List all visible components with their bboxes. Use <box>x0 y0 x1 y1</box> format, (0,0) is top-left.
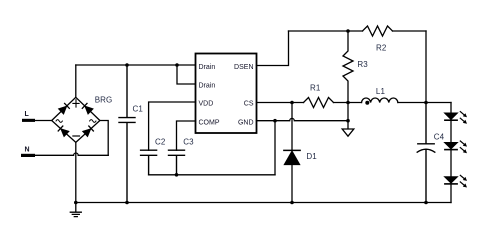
LED D2 <box>445 113 457 119</box>
svg-text:Drain: Drain <box>199 64 216 71</box>
resistor R2 <box>363 26 393 36</box>
svg-text:DSEN: DSEN <box>234 64 253 71</box>
svg-text:L1: L1 <box>376 87 386 96</box>
terminal N <box>21 154 35 157</box>
capacitor C2 <box>141 150 157 175</box>
wire <box>274 121 276 175</box>
ground arrow <box>342 129 354 136</box>
svg-text:C1: C1 <box>133 104 144 113</box>
wire <box>35 120 52 122</box>
svg-text:L: L <box>25 111 30 118</box>
capacitor C1 <box>119 65 135 203</box>
svg-text:R2: R2 <box>376 43 387 52</box>
wire <box>100 121 108 156</box>
LED D3 <box>445 143 457 149</box>
resistor R3 <box>343 31 353 103</box>
svg-text:C2: C2 <box>155 138 166 147</box>
svg-text:Drain: Drain <box>199 83 216 90</box>
capacitor C4 <box>417 103 435 203</box>
svg-text:R3: R3 <box>357 60 368 69</box>
wire <box>334 102 362 104</box>
wire CS <box>257 102 304 104</box>
wire <box>35 153 108 155</box>
resistor R1 <box>304 98 334 108</box>
terminal L <box>22 119 35 122</box>
wire <box>75 65 77 97</box>
wire <box>76 64 196 66</box>
svg-text:N: N <box>25 146 30 153</box>
wire <box>76 202 451 204</box>
wire COMP <box>177 121 196 150</box>
node dots <box>74 29 428 204</box>
svg-text:CS: CS <box>244 101 254 108</box>
wire <box>398 102 451 104</box>
wire <box>75 142 77 202</box>
wire <box>393 30 427 32</box>
wire GND <box>257 118 349 120</box>
wire <box>149 174 275 176</box>
ground <box>70 203 81 217</box>
op-amp U1 <box>196 54 257 134</box>
inductor L1 <box>362 98 398 103</box>
LED D4 <box>445 177 457 183</box>
wire VDD <box>149 102 196 150</box>
svg-text:C4: C4 <box>434 133 445 142</box>
svg-text:C3: C3 <box>183 138 194 147</box>
wire <box>450 103 452 203</box>
svg-text:D1: D1 <box>306 152 317 161</box>
wire <box>347 103 349 130</box>
svg-text:R1: R1 <box>310 84 321 93</box>
diode D1 <box>291 103 293 151</box>
wire <box>177 65 196 84</box>
svg-text:VDD: VDD <box>199 101 214 108</box>
svg-text:GND: GND <box>238 120 254 127</box>
capacitor C3 <box>169 150 185 175</box>
wire <box>425 31 427 103</box>
svg-text:BRG: BRG <box>95 95 113 104</box>
wire DSEN <box>257 31 289 66</box>
svg-text:COMP: COMP <box>199 120 220 127</box>
bridge BRG <box>52 97 100 142</box>
wire <box>289 30 363 32</box>
